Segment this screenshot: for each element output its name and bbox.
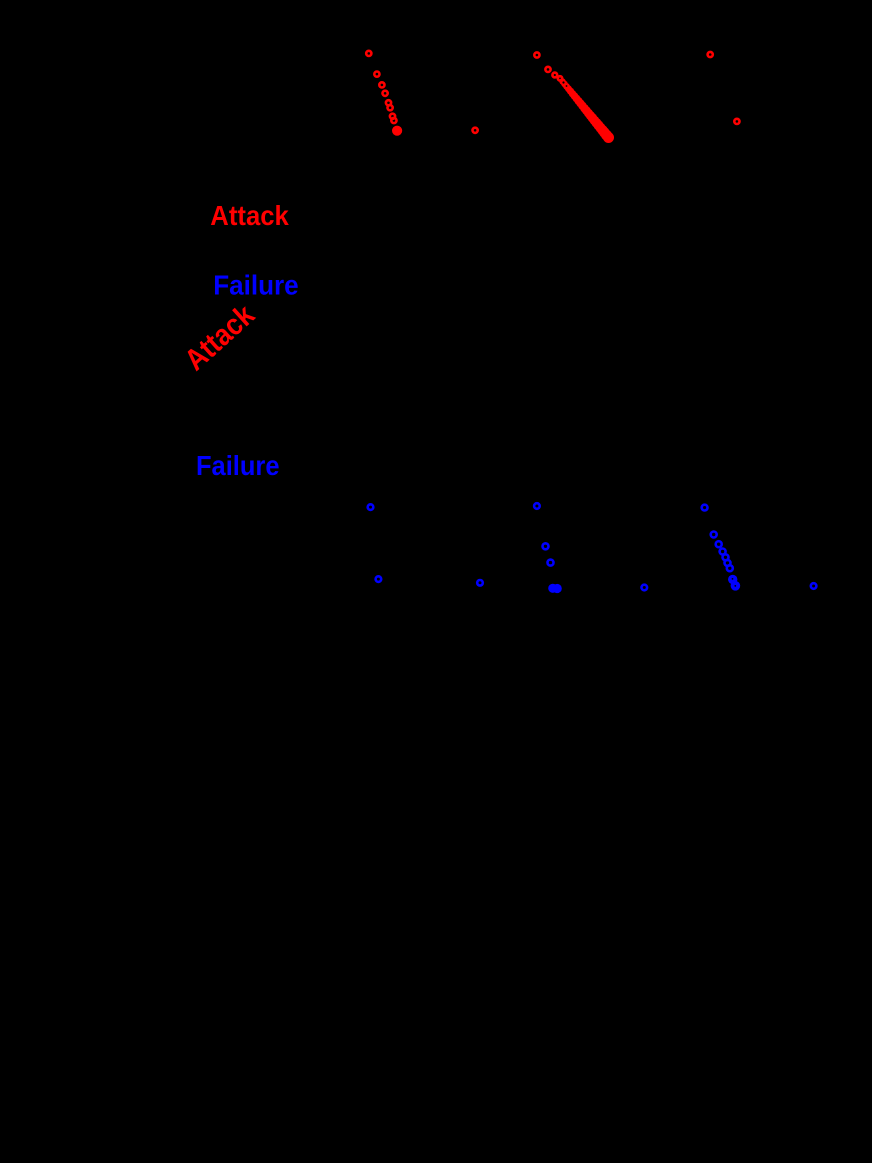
svg-text:Attack: Attack [210, 200, 289, 231]
svg-text:Failure: Failure [213, 269, 299, 300]
svg-text:Failure: Failure [196, 450, 280, 481]
